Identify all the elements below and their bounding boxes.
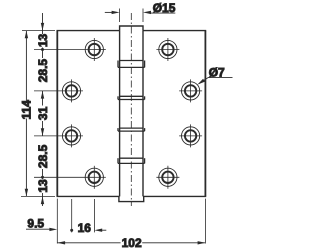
knuckle joint 4 <box>118 158 145 163</box>
hole B2 (right leaf row2) <box>179 79 202 102</box>
svg-text:114: 114 <box>20 100 34 120</box>
left extension lines (top edge, rows, bottom edge) <box>21 31 94 197</box>
hole crosshair extensions on left leaf rows1/4 <box>94 50 106 178</box>
dim Ø15 extension lines <box>120 9 143 23</box>
knuckle top cap <box>120 26 143 31</box>
hole B4 (right leaf row4) <box>156 166 179 189</box>
knuckle joint 2 <box>118 96 145 99</box>
chain marker: down arrow at row3 <box>41 128 44 136</box>
hole A1 (left leaf row1) <box>85 38 103 61</box>
hinge right leaf outline <box>143 31 206 197</box>
svg-text:9.5: 9.5 <box>27 217 44 231</box>
chain marker: up arrow at row2 <box>41 91 44 99</box>
hole A3 (left leaf row3) <box>62 124 80 147</box>
pin centerline <box>130 13 132 206</box>
dim Ø7 leader <box>197 78 232 85</box>
dim 102 line <box>57 241 205 244</box>
dim 16 markers <box>70 229 73 232</box>
svg-text:Ø7: Ø7 <box>209 65 225 79</box>
chain marker: outside arrow at top edge <box>41 23 44 31</box>
hole A4 (left leaf row4) <box>85 166 103 189</box>
svg-text:16: 16 <box>78 221 92 235</box>
knuckle joint 1 <box>118 61 145 68</box>
hinge left leaf outline <box>57 31 120 197</box>
knuckle column edges <box>120 31 143 197</box>
svg-text:28.5: 28.5 <box>36 144 50 168</box>
dim 9.5 leader and arrow <box>26 228 57 231</box>
dim 114 line <box>25 31 28 197</box>
svg-text:28.5: 28.5 <box>36 59 50 83</box>
svg-text:13: 13 <box>36 34 50 48</box>
knuckle bottom cap <box>119 196 144 201</box>
hole B1 (right leaf row1) <box>156 38 179 61</box>
svg-text:Ø15: Ø15 <box>153 1 176 15</box>
bottom extension lines <box>57 199 205 244</box>
chain dimension line x=42.5 <box>42 13 44 206</box>
svg-text:13: 13 <box>36 179 50 193</box>
dim Ø15 arrows and leader <box>105 11 176 14</box>
svg-text:31: 31 <box>36 106 50 120</box>
hole B3 (right leaf row3) <box>179 124 202 147</box>
chain marker: outside arrow at bottom edge <box>41 196 44 204</box>
chain marker: dot at row1 <box>41 48 44 51</box>
hole A2 (left leaf row2) <box>62 79 80 102</box>
knuckle joint 3 <box>118 128 145 131</box>
svg-text:102: 102 <box>122 236 142 250</box>
chain marker: dot at row4 <box>41 176 44 179</box>
